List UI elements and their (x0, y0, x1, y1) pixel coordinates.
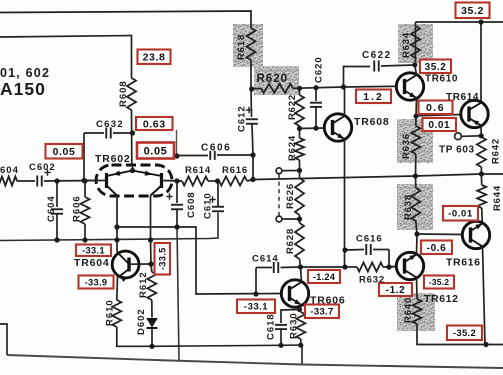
svg-text:TR610: TR610 (425, 74, 458, 85)
svg-text:C618: C618 (266, 313, 277, 340)
svg-text:R616: R616 (222, 165, 248, 176)
svg-text:-33.1: -33.1 (244, 302, 268, 313)
svg-text:-1.24: -1.24 (313, 272, 336, 282)
svg-text:35.2: 35.2 (461, 5, 484, 17)
svg-text:604: 604 (0, 165, 19, 176)
svg-text:R644: R644 (492, 185, 503, 211)
svg-text:R642: R642 (491, 138, 502, 164)
svg-text:R626: R626 (285, 183, 296, 209)
svg-text:TR606: TR606 (310, 295, 346, 307)
svg-text:TR602: TR602 (95, 153, 131, 165)
svg-text:R614: R614 (185, 165, 211, 176)
svg-text:C612: C612 (237, 105, 248, 132)
svg-text:35.2: 35.2 (425, 62, 447, 73)
svg-text:R610: R610 (105, 299, 116, 326)
svg-text:R640: R640 (403, 297, 414, 323)
svg-text:-33.1: -33.1 (82, 246, 105, 256)
svg-text:0.01: 0.01 (428, 120, 450, 131)
svg-text:C616: C616 (356, 234, 383, 245)
svg-text:0.6: 0.6 (426, 102, 445, 114)
svg-text:C620: C620 (314, 56, 325, 83)
svg-text:0.63: 0.63 (143, 118, 166, 130)
svg-text:-33.9: -33.9 (85, 277, 108, 287)
svg-text:C610: C610 (203, 192, 214, 219)
svg-text:R622: R622 (287, 94, 298, 120)
svg-text:C622: C622 (362, 50, 392, 61)
svg-text:C602: C602 (29, 162, 56, 173)
svg-text:-1.2: -1.2 (386, 285, 406, 296)
svg-text:R632: R632 (359, 275, 385, 286)
svg-text:-0.6: -0.6 (427, 243, 447, 254)
svg-text:C614: C614 (252, 254, 279, 265)
svg-text:R628: R628 (285, 228, 296, 254)
svg-text:-35.2: -35.2 (429, 277, 450, 287)
svg-text:-33.5: -33.5 (158, 247, 168, 270)
svg-text:C604: C604 (46, 195, 57, 222)
svg-text:R606: R606 (72, 195, 83, 222)
svg-text:TR614: TR614 (446, 92, 479, 103)
svg-text:C606: C606 (201, 143, 231, 154)
svg-text:R636: R636 (401, 133, 412, 159)
svg-text:TR616: TR616 (446, 257, 481, 269)
svg-text:R624: R624 (287, 135, 298, 161)
svg-text:01, 602: 01, 602 (0, 66, 50, 80)
svg-text:TR612: TR612 (424, 293, 459, 305)
svg-text:C632: C632 (96, 119, 124, 130)
svg-text:R634: R634 (401, 32, 412, 58)
svg-text:D602: D602 (136, 308, 147, 335)
svg-text:R638: R638 (403, 194, 414, 220)
svg-text:TR608: TR608 (354, 116, 390, 128)
svg-text:-35.2: -35.2 (453, 328, 476, 339)
svg-text:TP 603: TP 603 (439, 145, 475, 156)
svg-text:C608: C608 (186, 191, 197, 218)
svg-text:-0.01: -0.01 (448, 209, 473, 220)
svg-text:R612: R612 (138, 271, 149, 298)
svg-text:1.2: 1.2 (363, 91, 384, 103)
svg-text:TR604: TR604 (74, 257, 110, 269)
svg-text:R618: R618 (236, 34, 247, 60)
svg-text:-33.7: -33.7 (310, 307, 333, 318)
svg-text:A150: A150 (0, 79, 46, 99)
svg-text:R630: R630 (289, 312, 300, 339)
svg-text:0.05: 0.05 (144, 145, 168, 157)
svg-text:23.8: 23.8 (143, 52, 166, 64)
svg-text:R608: R608 (118, 80, 129, 107)
svg-text:0.05: 0.05 (53, 146, 76, 158)
svg-text:R620: R620 (257, 73, 289, 85)
